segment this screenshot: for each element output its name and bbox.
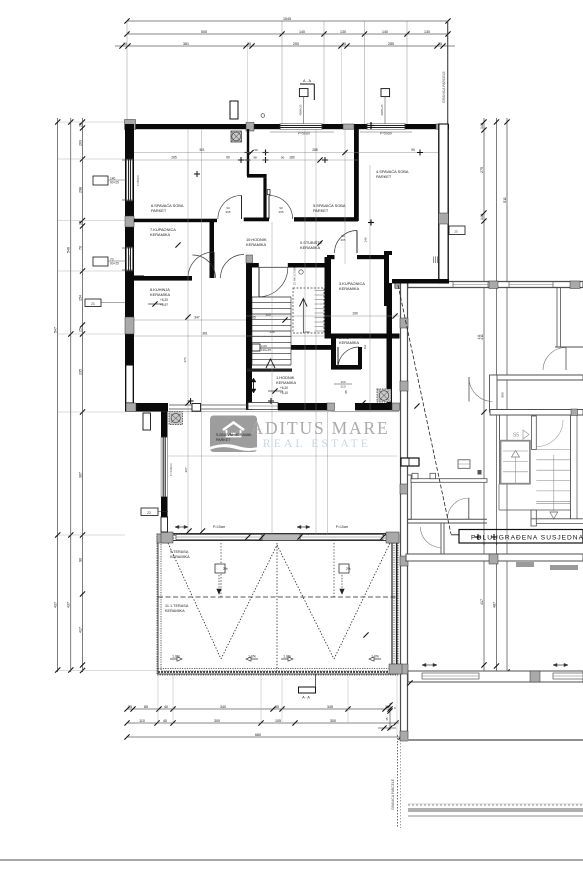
svg-text:F=140cm: F=140cm	[169, 463, 173, 476]
svg-text:25: 25	[78, 328, 82, 332]
svg-text:190: 190	[352, 312, 358, 316]
svg-text:347: 347	[194, 316, 200, 320]
svg-text:PARKET: PARKET	[216, 438, 231, 442]
svg-text:P=10cm: P=10cm	[336, 525, 349, 529]
svg-text:411: 411	[477, 334, 481, 339]
svg-text:298: 298	[78, 187, 82, 193]
svg-text:25: 25	[438, 42, 442, 46]
svg-text:90: 90	[411, 148, 415, 152]
svg-text:130: 130	[269, 330, 274, 334]
svg-text:275: 275	[480, 167, 484, 173]
svg-text:2%: 2%	[346, 567, 351, 571]
svg-text:90: 90	[281, 156, 285, 160]
svg-text:ADITUS MARE: ADITUS MARE	[251, 418, 390, 438]
svg-text:KERAMIKA: KERAMIKA	[150, 292, 171, 297]
svg-text:90: 90	[359, 335, 363, 339]
svg-text:90+25: 90+25	[110, 262, 119, 266]
svg-text:154: 154	[78, 295, 82, 301]
svg-text:140: 140	[382, 30, 388, 34]
svg-text:22: 22	[147, 511, 151, 515]
svg-text:35: 35	[275, 705, 279, 709]
svg-text:PARKET: PARKET	[376, 174, 392, 179]
svg-text:21: 21	[91, 302, 95, 306]
svg-text:301: 301	[199, 148, 205, 152]
svg-text:KERAMIKA: KERAMIKA	[150, 232, 171, 237]
svg-text:+6,10: +6,10	[280, 391, 288, 395]
svg-text:265: 265	[171, 156, 177, 160]
svg-text:340: 340	[220, 705, 226, 709]
svg-text:+6,20: +6,20	[280, 386, 288, 390]
svg-text:POLUUGRAĐENA SUSJEDNA ZG: POLUUGRAĐENA SUSJEDNA ZG	[471, 535, 583, 542]
svg-text:111: 111	[363, 344, 367, 349]
svg-text:A - A: A - A	[302, 696, 310, 700]
svg-text:KERAMIKA: KERAMIKA	[300, 245, 321, 250]
svg-text:40: 40	[164, 705, 168, 709]
svg-text:25: 25	[78, 221, 82, 225]
svg-text:437: 437	[67, 602, 71, 608]
svg-text:90: 90	[78, 558, 82, 562]
svg-text:25: 25	[342, 42, 346, 46]
svg-text:205: 205	[278, 210, 283, 214]
svg-text:S5: S5	[513, 433, 519, 439]
svg-text:300: 300	[214, 719, 220, 723]
svg-text:+6,20: +6,20	[160, 298, 168, 302]
svg-text:25: 25	[454, 230, 458, 234]
svg-text:100: 100	[304, 330, 309, 334]
svg-text:210: 210	[340, 385, 345, 389]
svg-text:S.DNEVNI BORAVAK: S.DNEVNI BORAVAK	[216, 433, 252, 437]
svg-text:546: 546	[67, 247, 71, 253]
svg-text:90: 90	[226, 156, 230, 160]
svg-text:70: 70	[78, 246, 82, 250]
svg-text:288: 288	[312, 148, 318, 152]
svg-text:110+25: 110+25	[261, 348, 271, 352]
svg-text:367: 367	[184, 467, 188, 472]
svg-text:110: 110	[265, 313, 270, 317]
svg-text:20: 20	[392, 335, 396, 339]
svg-text:180: 180	[289, 156, 295, 160]
svg-text:140: 140	[299, 30, 305, 34]
svg-text:GRANICA PARCELE: GRANICA PARCELE	[442, 70, 446, 103]
svg-text:A - A: A - A	[303, 79, 311, 83]
svg-text:PARKET: PARKET	[151, 208, 167, 213]
svg-text:KERAMIKA: KERAMIKA	[170, 555, 190, 559]
svg-text:85: 85	[344, 390, 348, 394]
svg-text:263: 263	[78, 140, 82, 146]
svg-text:90+25: 90+25	[110, 181, 119, 185]
svg-text:417: 417	[78, 627, 82, 633]
svg-text:F=80cm: F=80cm	[136, 175, 140, 186]
svg-text:140: 140	[480, 214, 484, 220]
svg-text:417: 417	[480, 599, 484, 605]
svg-text:9.TERASA: 9.TERASA	[170, 550, 189, 554]
svg-text:15: 15	[385, 717, 389, 721]
svg-text:146: 146	[364, 237, 368, 242]
svg-text:11.1.TERASA: 11.1.TERASA	[165, 604, 189, 608]
svg-text:547: 547	[54, 327, 58, 333]
svg-text:130: 130	[424, 30, 430, 34]
svg-text:PARKET: PARKET	[313, 208, 329, 213]
svg-text:KERAMIKA: KERAMIKA	[339, 286, 360, 291]
svg-text:2%: 2%	[223, 567, 228, 571]
svg-text:KERAMIKA: KERAMIKA	[276, 380, 297, 385]
svg-text:+5,97: +5,97	[160, 303, 168, 307]
svg-text:GRANICA PARCELE: GRANICA PARCELE	[391, 778, 395, 810]
svg-text:KERAMIKA: KERAMIKA	[339, 340, 360, 345]
svg-text:50: 50	[254, 148, 258, 152]
svg-text:98: 98	[253, 156, 257, 160]
svg-text:25: 25	[247, 42, 251, 46]
svg-text:205: 205	[225, 210, 230, 214]
svg-text:285: 285	[388, 42, 394, 46]
svg-text:367: 367	[78, 472, 82, 478]
svg-text:105: 105	[275, 719, 281, 723]
svg-text:511: 511	[503, 197, 507, 203]
svg-text:25: 25	[128, 705, 132, 709]
svg-text:P=10cm: P=10cm	[213, 525, 226, 529]
svg-text:300: 300	[330, 719, 336, 723]
svg-text:85: 85	[144, 705, 148, 709]
svg-text:KERAMIKA: KERAMIKA	[165, 609, 185, 613]
svg-text:235: 235	[78, 369, 82, 375]
svg-text:100: 100	[340, 380, 345, 384]
svg-text:345: 345	[327, 705, 333, 709]
svg-text:437: 437	[54, 602, 58, 608]
svg-text:487: 487	[492, 602, 496, 608]
svg-text:140: 140	[480, 123, 484, 129]
svg-text:381: 381	[183, 42, 189, 46]
svg-text:REAL ESTATE: REAL ESTATE	[263, 438, 371, 450]
svg-text:374: 374	[183, 357, 187, 362]
svg-text:110: 110	[139, 719, 145, 723]
svg-text:361: 361	[202, 332, 208, 336]
svg-text:505: 505	[201, 30, 207, 34]
svg-text:800: 800	[501, 392, 505, 397]
svg-text:200: 200	[293, 42, 299, 46]
svg-text:40: 40	[163, 719, 167, 723]
svg-text:15 NA 17,6/28: 15 NA 17,6/28	[293, 267, 297, 285]
svg-text:1545: 1545	[283, 17, 291, 21]
svg-text:40/90+25: 40/90+25	[380, 104, 384, 115]
svg-text:680: 680	[255, 733, 261, 737]
svg-text:25: 25	[78, 123, 82, 127]
svg-text:F=56cm: F=56cm	[127, 255, 131, 266]
svg-text:105: 105	[250, 316, 256, 320]
svg-text:130: 130	[340, 30, 346, 34]
svg-text:25: 25	[123, 42, 127, 46]
svg-text:40/90+25: 40/90+25	[299, 104, 303, 115]
svg-text:KERAMIKA: KERAMIKA	[246, 242, 267, 247]
